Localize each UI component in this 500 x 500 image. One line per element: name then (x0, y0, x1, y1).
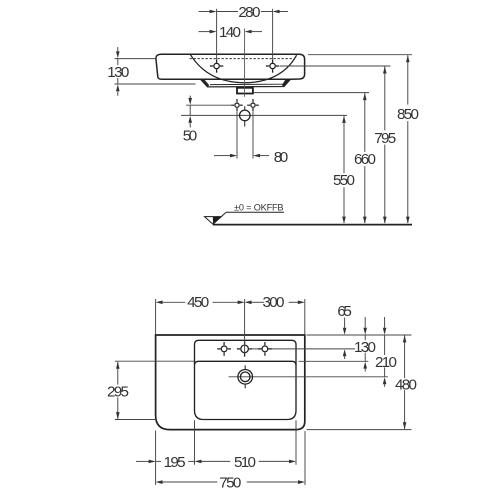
dim 450 / 300 (156, 299, 305, 354)
svg-text:±0 = OKFFB: ±0 = OKFFB (234, 202, 284, 212)
svg-text:550: 550 (333, 172, 355, 189)
svg-text:140: 140 (219, 24, 241, 41)
dim 295 (115, 361, 194, 419)
svg-text:850: 850 (397, 106, 419, 123)
drain boss (237, 88, 253, 94)
floor line (213, 224, 412, 226)
fixing hole left (front) (210, 59, 223, 72)
dim 660 (364, 93, 366, 223)
svg-text:130: 130 (107, 64, 129, 81)
dim 130 (plan) (364, 317, 366, 372)
bowl rim chord (195, 361, 297, 365)
bottom ext verticals (156, 420, 305, 485)
drain horizontal line (229, 376, 389, 378)
svg-text:210: 210 (375, 354, 397, 371)
dim 795 (384, 67, 386, 224)
svg-text:130: 130 (354, 339, 376, 356)
svg-text:295: 295 (107, 384, 129, 401)
dim 140 (199, 31, 263, 33)
extension line y=105.2 (50 ref) (186, 104, 232, 106)
svg-text:80: 80 (274, 149, 289, 166)
tap hole right (258, 342, 272, 356)
svg-text:750: 750 (219, 475, 241, 492)
right foot (282, 79, 291, 87)
drain circles (238, 370, 253, 385)
svg-text:450: 450 (187, 294, 209, 311)
extension line y=115.4 (550 ref, through drain circle) (181, 114, 347, 116)
svg-text:480: 480 (395, 377, 417, 394)
dim 130 (front left) (115, 47, 196, 96)
dim 280 (199, 9, 289, 59)
dim 750 (163, 481, 298, 483)
small fixing crosses below (231, 99, 243, 111)
dim 210 (384, 317, 386, 387)
level symbol (205, 217, 222, 225)
fixing hole right (front) (266, 59, 279, 72)
svg-text:300: 300 (263, 294, 285, 311)
dim 195 / 510 (136, 460, 289, 462)
svg-text:510: 510 (234, 454, 256, 471)
underside recess outline (201, 79, 291, 87)
svg-text:50: 50 (183, 128, 198, 145)
dim 65 (344, 318, 346, 360)
left foot (201, 79, 210, 87)
dim 50 (189, 96, 191, 128)
tap hole ext line (253, 348, 356, 350)
basin body outline (156, 54, 305, 79)
dim 850 (407, 55, 409, 223)
svg-text:65: 65 (337, 303, 352, 320)
bowl arc (191, 55, 297, 83)
svg-text:195: 195 (164, 454, 186, 471)
dashed inner rim line (190, 58, 294, 60)
svg-text:795: 795 (374, 130, 396, 147)
dim 480 (404, 335, 406, 429)
80 dim verticals (236, 112, 238, 159)
dim 550 (343, 116, 345, 223)
center line (front) (244, 29, 246, 97)
tap hole left (217, 342, 231, 356)
svg-text:660: 660 (354, 151, 376, 168)
plan right ext lines (299, 335, 412, 430)
right extension lines (254, 55, 412, 93)
drain outlet circle (240, 110, 251, 121)
plan outer outline (156, 335, 305, 430)
deck / bowl rounded rect (195, 340, 297, 419)
tap hole middle (237, 341, 252, 356)
dim 80 (214, 155, 269, 157)
svg-text:280: 280 (238, 4, 260, 21)
